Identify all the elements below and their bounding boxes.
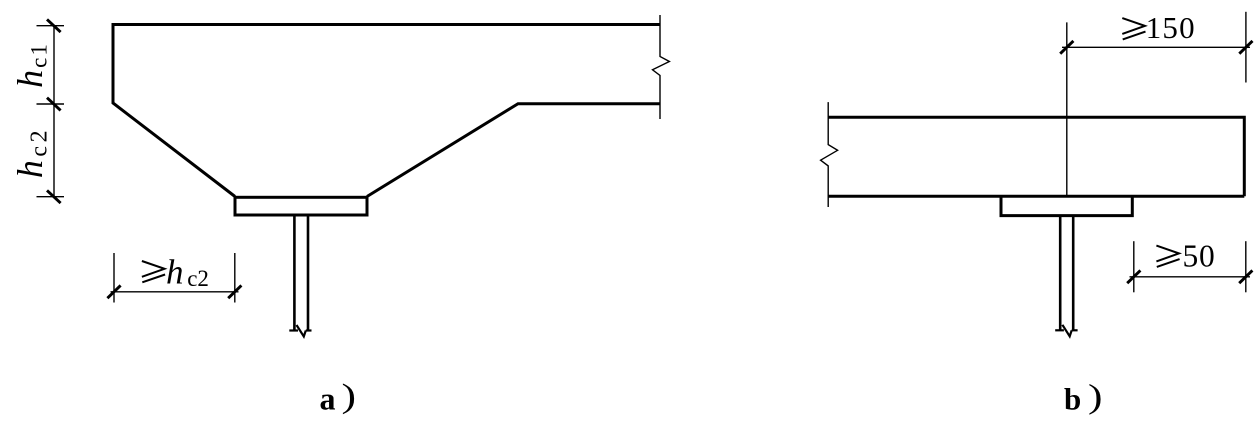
geq symbol of >=50 — [1156, 246, 1179, 267]
extension line right of >=h_c2 dim (a) — [234, 253, 236, 303]
svg-text:): ) — [1088, 378, 1103, 415]
extension line left of >=h_c2 dim (a) — [113, 253, 115, 303]
dimension line >=50 (b) — [1130, 276, 1251, 278]
svg-text:): ) — [342, 378, 357, 415]
svg-text:b: b — [1064, 382, 1081, 417]
dimension line >=h_c2 (a) — [111, 291, 239, 293]
geq symbol of >=150 — [1122, 18, 1145, 39]
tick left — [1127, 270, 1140, 283]
svg-text:150: 150 — [1146, 10, 1196, 45]
capital plate (a) — [235, 197, 367, 215]
column break (a) — [289, 325, 311, 337]
tick top — [47, 19, 61, 32]
dim stub middle — [37, 103, 65, 105]
slab break line left end (b) — [821, 102, 838, 207]
column break (b) — [1055, 325, 1077, 337]
column (b) — [1060, 216, 1073, 330]
svg-text:a: a — [320, 381, 336, 417]
tick right — [1239, 270, 1252, 283]
svg-text:50: 50 — [1183, 239, 1216, 274]
tick right — [1239, 41, 1252, 54]
dim stub top — [37, 25, 65, 27]
tick middle — [47, 98, 61, 111]
extension line right of >=50 dim (b) — [1245, 241, 1247, 292]
tick right — [228, 285, 241, 298]
dimension line >=150 (b) — [1062, 46, 1250, 48]
tick bottom — [47, 190, 61, 203]
svg-text:h: h — [166, 252, 184, 291]
tick left — [107, 285, 120, 298]
slab and capital outline (a) — [113, 25, 660, 197]
dim stub bottom — [37, 196, 65, 198]
slab (b) — [828, 117, 1244, 196]
slab break line right end (a) — [653, 15, 670, 119]
tick left — [1060, 41, 1073, 54]
geq symbol of >=h_c2 — [142, 261, 165, 282]
column centre line (b) — [1066, 22, 1068, 196]
extension line left of >=50 dim (b) — [1133, 241, 1135, 292]
extension line right of >=150 dim (b) — [1245, 12, 1247, 83]
drop panel (b) — [1001, 196, 1132, 215]
column (a) — [294, 215, 308, 330]
vertical dimension line (a) — [53, 26, 55, 197]
svg-text:c2: c2 — [187, 266, 209, 291]
